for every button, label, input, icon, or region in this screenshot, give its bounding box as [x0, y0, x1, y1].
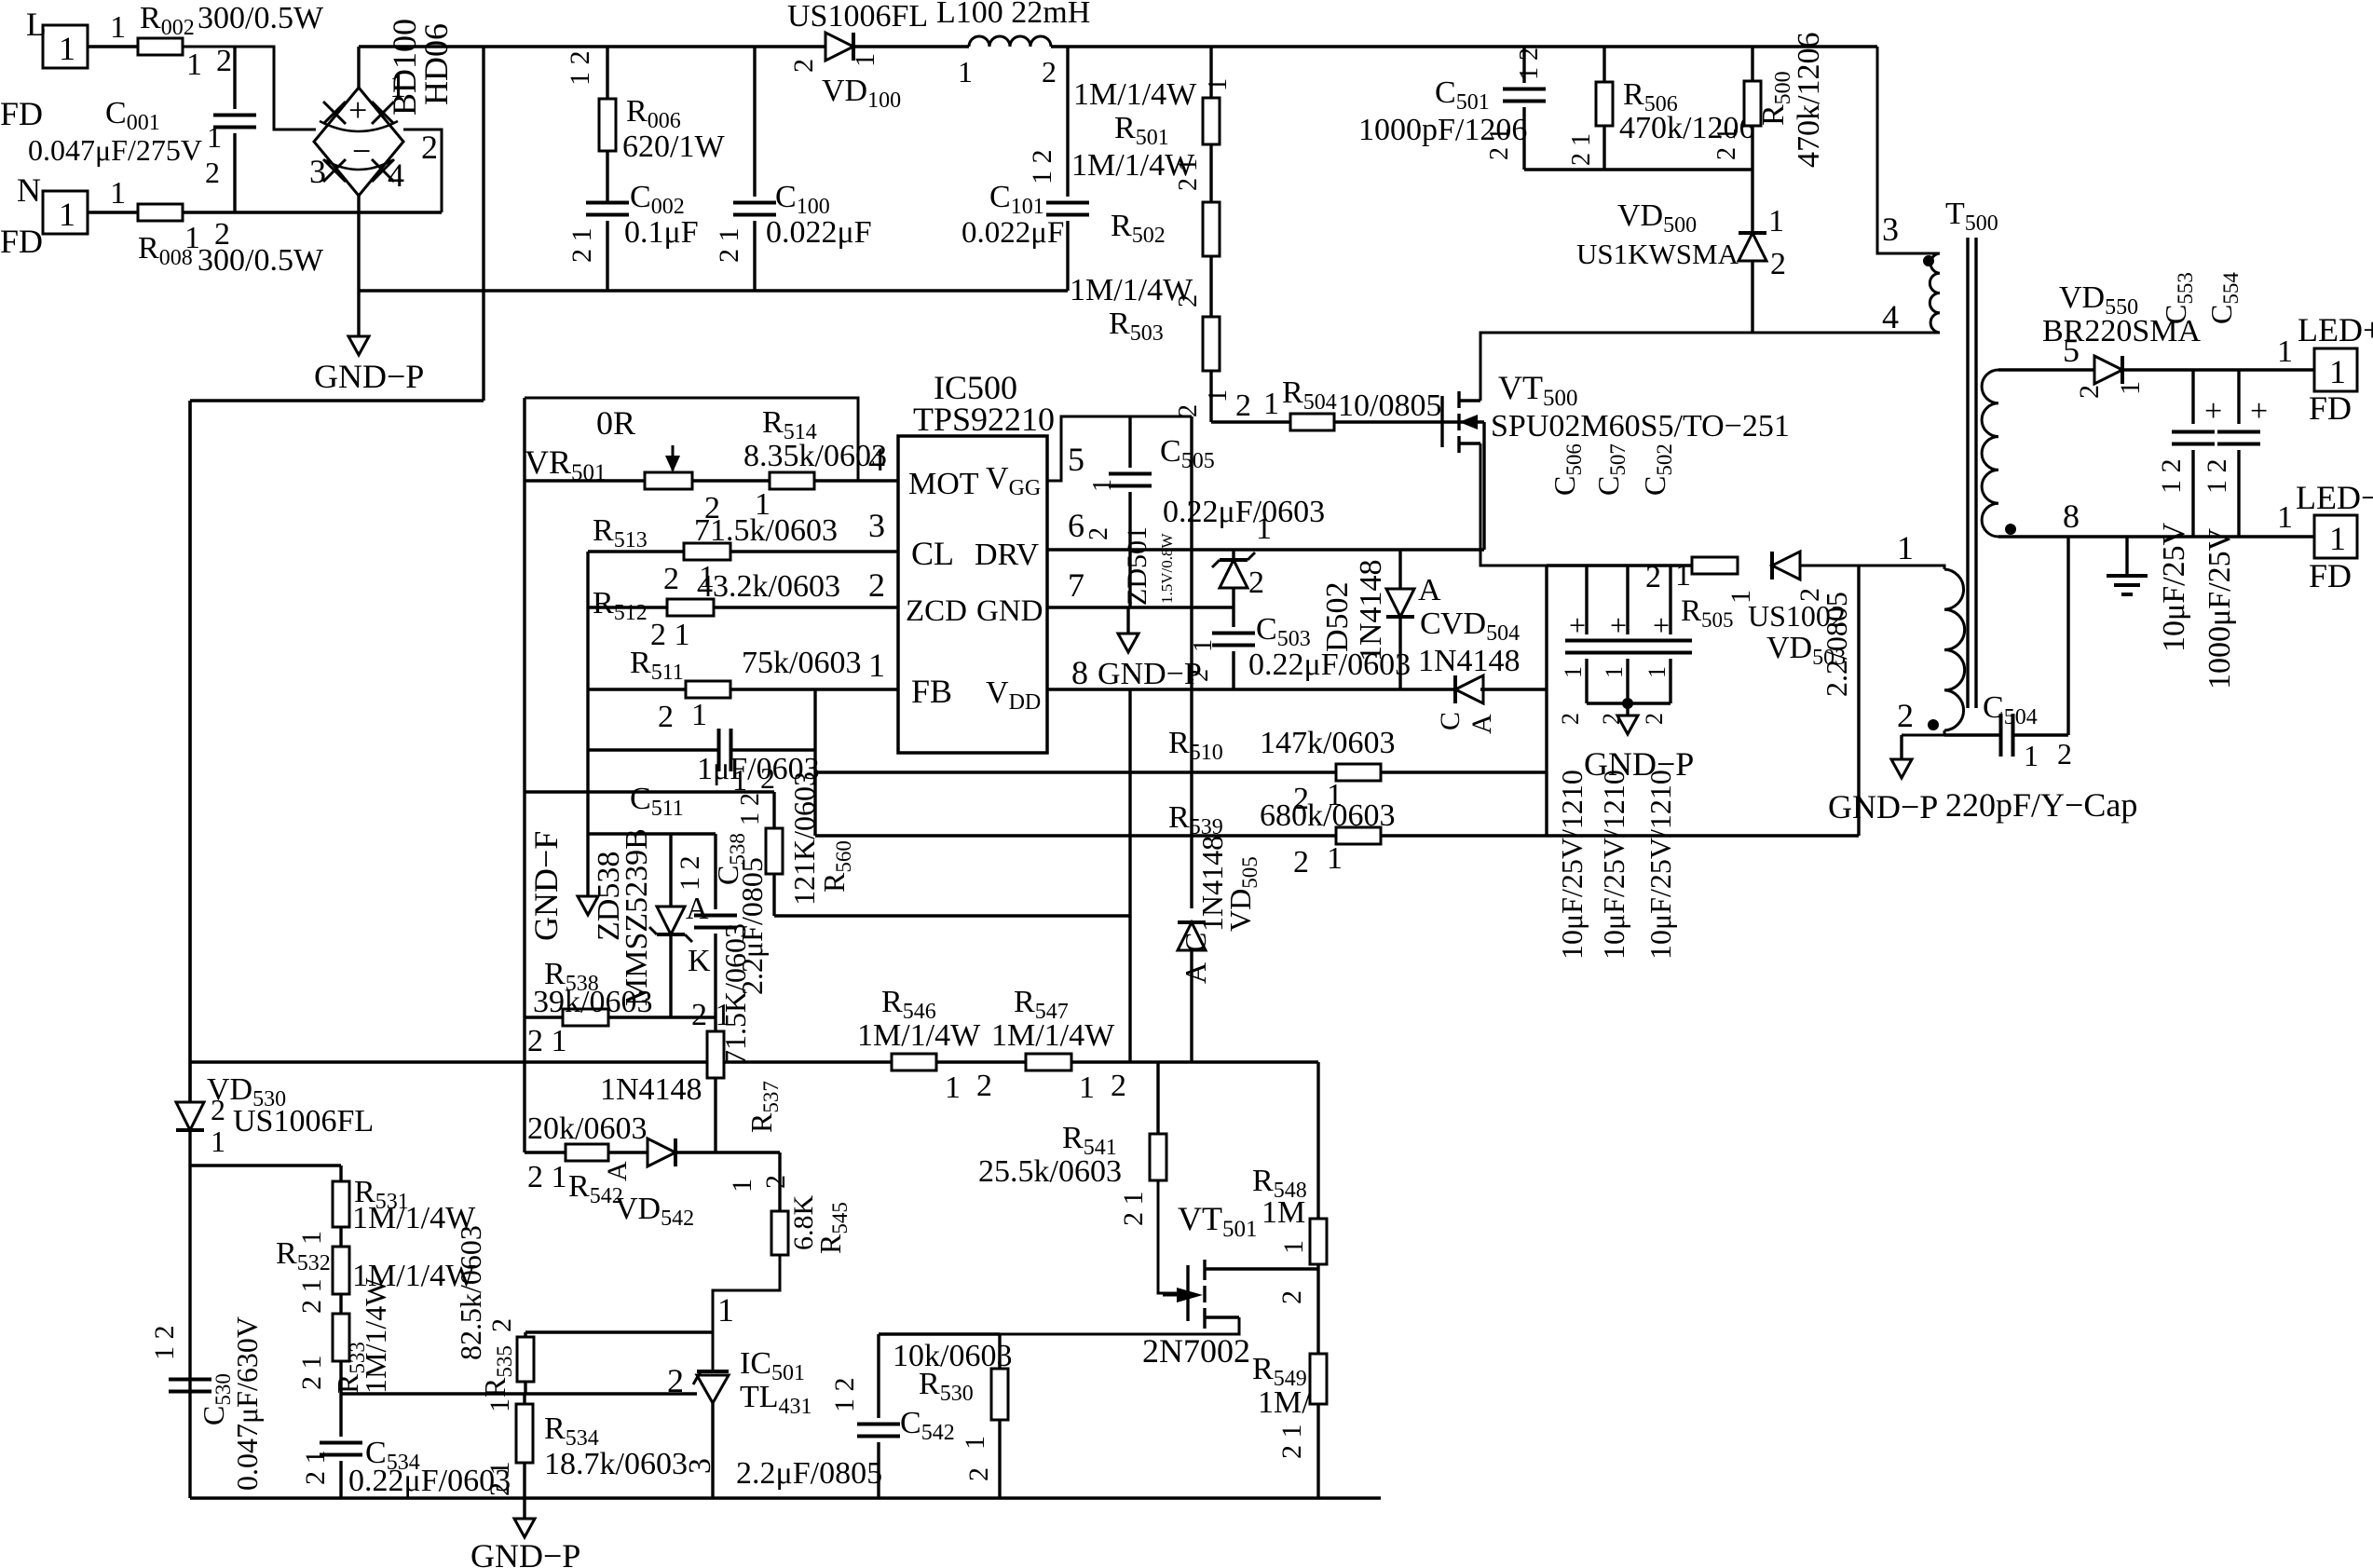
svg-text:1: 1 — [296, 1231, 327, 1245]
svg-text:1: 1 — [1256, 511, 1272, 546]
svg-text:0.047μF/630V: 0.047μF/630V — [230, 1316, 264, 1491]
svg-text:2: 2 — [1293, 845, 1309, 879]
svg-text:2: 2 — [205, 156, 220, 189]
wire R501-R502 — [1209, 144, 1212, 202]
capacitor C001 — [233, 47, 236, 109]
wire VDD to FB link — [1128, 689, 1131, 916]
svg-text:3: 3 — [309, 153, 326, 190]
svg-text:3: 3 — [1882, 211, 1899, 248]
resistor R539 — [1336, 827, 1381, 844]
wire GND row — [1047, 606, 1234, 608]
resistor R534 — [523, 1394, 525, 1404]
svg-text:0.1μF: 0.1μF — [624, 215, 699, 250]
svg-text:1: 1 — [1897, 529, 1914, 566]
svg-text:1: 1 — [1643, 666, 1671, 678]
resistor R537 body — [707, 1031, 724, 1078]
wire box2 left — [523, 398, 525, 1152]
connector N FD — [43, 191, 88, 234]
resistor R502 — [1203, 202, 1220, 256]
wire VDD row — [1047, 688, 1455, 690]
svg-text:−: − — [352, 132, 371, 170]
wire R541 to VT501 gate — [1158, 1180, 1188, 1293]
svg-text:K: K — [688, 944, 711, 978]
capacitor C505 — [1128, 416, 1131, 468]
wire VR501 to R514 — [692, 479, 770, 482]
svg-text:1: 1 — [1204, 78, 1233, 91]
diode VD505 1N4148 — [1190, 907, 1193, 909]
svg-text:1: 1 — [1079, 1070, 1095, 1105]
svg-text:147k/0603: 147k/0603 — [1260, 726, 1395, 760]
svg-text:1 2: 1 2 — [2202, 459, 2232, 495]
capacitor C554 — [2237, 370, 2240, 424]
wire R512 to ZCD — [714, 606, 898, 608]
svg-text:+: + — [2204, 394, 2222, 429]
svg-text:1: 1 — [1278, 1240, 1309, 1254]
wire top bus after L100 — [1051, 45, 1877, 48]
wire aux top — [1796, 566, 1944, 569]
wire C542 top row — [879, 1332, 1000, 1335]
svg-text:1: 1 — [2329, 520, 2346, 557]
svg-text:1000μF/25V: 1000μF/25V — [2203, 527, 2237, 689]
capacitor C534 — [339, 1394, 342, 1437]
svg-text:HD06: HD06 — [417, 23, 455, 105]
capacitor C501 — [1522, 47, 1525, 83]
ic U IC500 TPS92210 box — [898, 436, 1047, 753]
svg-text:8.35k/0603: 8.35k/0603 — [743, 439, 887, 473]
svg-text:N: N — [17, 171, 41, 209]
svg-text:20k/0603: 20k/0603 — [527, 1111, 647, 1146]
svg-text:1: 1 — [184, 221, 200, 255]
svg-text:1 2: 1 2 — [565, 51, 595, 87]
resistor R511 — [686, 681, 730, 698]
resistor R510 — [1336, 764, 1381, 781]
svg-text:1M/1/4W: 1M/1/4W — [1070, 273, 1193, 307]
resistor R514 — [770, 472, 814, 489]
svg-text:1 2: 1 2 — [675, 856, 705, 892]
transformer aux winding — [1944, 569, 1965, 730]
wire R513 to CL — [730, 550, 898, 552]
wire zd538 top — [588, 832, 716, 835]
wire R533 to ref row — [339, 1361, 342, 1394]
svg-text:1: 1 — [1601, 666, 1628, 678]
svg-text:+: + — [1653, 608, 1670, 642]
diode VD504 1N4148 — [1455, 675, 1483, 703]
svg-text:+: + — [1569, 608, 1586, 642]
ground GND-P bridge — [357, 291, 360, 336]
svg-text:1N4148: 1N4148 — [600, 1072, 702, 1107]
resistor R546 — [892, 1054, 936, 1070]
top HV bus wire — [359, 45, 829, 48]
svg-text:1: 1 — [1327, 841, 1343, 876]
svg-text:5: 5 — [1068, 441, 1084, 478]
wire R502-R503 — [1209, 256, 1212, 317]
wire secondary bottom to LED- — [1998, 535, 2314, 538]
wire R535 top row — [525, 1330, 713, 1333]
connector L FD — [43, 25, 88, 68]
svg-text:0.022μF: 0.022μF — [961, 216, 1064, 250]
wire TL431 ref row — [341, 1392, 697, 1395]
wire R511 to FB — [730, 688, 898, 690]
svg-text:25.5k/0603: 25.5k/0603 — [978, 1154, 1122, 1189]
svg-text:DRV: DRV — [975, 538, 1040, 572]
svg-text:FD: FD — [0, 223, 43, 260]
svg-text:1: 1 — [1675, 558, 1691, 593]
svg-text:FD: FD — [2309, 389, 2352, 427]
resistor R549 — [1316, 1269, 1319, 1354]
wire top bus right of VD100 — [853, 45, 969, 48]
capacitor C538 — [714, 834, 716, 909]
svg-text:+: + — [1610, 608, 1627, 642]
wire R546 row — [190, 1060, 892, 1063]
resistor R533 — [333, 1314, 349, 1361]
gnd bus wire — [359, 289, 1068, 292]
svg-text:1 2: 1 2 — [1027, 150, 1057, 185]
earth ground output — [2125, 537, 2128, 576]
wire R514 to MOT — [814, 479, 898, 482]
wire bridge + to top bus — [357, 47, 360, 88]
diode D502 — [1398, 550, 1401, 589]
svg-text:2 1: 2 1 — [484, 1462, 515, 1497]
svg-text:1: 1 — [1088, 479, 1117, 492]
svg-text:2: 2 — [1042, 55, 1057, 89]
svg-text:1: 1 — [850, 53, 880, 67]
svg-text:2 1: 2 1 — [1485, 128, 1514, 160]
svg-text:1: 1 — [2024, 739, 2039, 772]
capacitor C100 — [753, 47, 756, 197]
svg-text:1: 1 — [1560, 666, 1587, 678]
resistor R006 — [606, 47, 608, 99]
resistor R542 — [566, 1144, 608, 1161]
ground GND-P IC — [1126, 607, 1129, 634]
ground GND-P aux caps — [1626, 703, 1629, 716]
svg-text:1: 1 — [186, 48, 202, 82]
svg-text:1: 1 — [211, 1125, 225, 1158]
svg-text:2 1: 2 1 — [1567, 133, 1596, 166]
svg-text:0.022μF: 0.022μF — [766, 215, 872, 250]
svg-text:1M/: 1M/ — [1258, 1385, 1311, 1420]
svg-text:2: 2 — [760, 761, 775, 795]
svg-text:LED+: LED+ — [2298, 311, 2373, 348]
svg-text:0.047μF/275V: 0.047μF/275V — [28, 133, 202, 167]
svg-text:2: 2 — [1111, 1069, 1126, 1103]
wire ZCD row — [588, 606, 667, 608]
svg-text:2: 2 — [216, 44, 232, 78]
resistor R532 — [333, 1247, 349, 1294]
wire aux pin2 bottom — [1902, 730, 1944, 735]
svg-text:2N7002: 2N7002 — [1142, 1332, 1250, 1370]
wire R503 to gate node — [1209, 371, 1212, 422]
svg-text:2: 2 — [214, 217, 230, 252]
svg-text:2 1: 2 1 — [566, 228, 597, 264]
capacitor C503 — [1232, 607, 1234, 627]
capacitor C553 — [2191, 370, 2194, 424]
svg-text:LED−: LED− — [2296, 479, 2373, 516]
svg-text:2: 2 — [788, 59, 819, 73]
svg-text:2: 2 — [2074, 385, 2105, 399]
svg-text:2: 2 — [1084, 527, 1113, 540]
svg-text:2 1: 2 1 — [1276, 1425, 1307, 1460]
resistor R531 — [333, 1181, 349, 1227]
wire VGG to C505 top — [1047, 416, 1192, 481]
svg-text:1: 1 — [110, 176, 126, 211]
svg-text:1: 1 — [484, 1398, 515, 1412]
svg-text:2: 2 — [1897, 697, 1914, 734]
wire VD503 right + box right edge — [1857, 566, 1860, 836]
svg-text:1: 1 — [727, 1179, 757, 1193]
svg-text:FD: FD — [2309, 557, 2352, 594]
svg-text:A: A — [686, 892, 709, 926]
svg-text:470k/1206: 470k/1206 — [1792, 33, 1826, 168]
resistor R513 — [684, 543, 730, 560]
svg-text:FB: FB — [911, 673, 952, 710]
resistor R548 — [1316, 1062, 1319, 1219]
wire R546-R547 — [936, 1060, 1026, 1063]
svg-text:L100 22mH: L100 22mH — [936, 0, 1090, 30]
svg-text:2 1: 2 1 — [296, 1279, 327, 1315]
svg-text:A: A — [1418, 573, 1441, 607]
svg-text:1: 1 — [1204, 389, 1233, 402]
svg-text:10μF/25V: 10μF/25V — [2157, 522, 2191, 652]
resistor R530 — [998, 1334, 1001, 1369]
svg-text:1M/1/4W: 1M/1/4W — [1073, 77, 1197, 112]
potentiometer VR501 0R — [645, 472, 692, 489]
svg-text:1 2: 1 2 — [1515, 48, 1544, 80]
svg-text:1: 1 — [59, 30, 75, 67]
resistor R547 — [1026, 1054, 1071, 1070]
svg-text:2: 2 — [760, 1175, 791, 1189]
wire HV feed down x519 — [482, 47, 484, 401]
wire FB row — [588, 688, 686, 690]
svg-text:L: L — [26, 6, 47, 43]
capacitor C502 — [1669, 566, 1671, 634]
resistor R008 — [138, 204, 183, 221]
connector LED- — [2314, 515, 2357, 558]
svg-text:10μF/25V/1210: 10μF/25V/1210 — [1555, 770, 1589, 960]
wire box2 top — [525, 398, 858, 481]
svg-text:1: 1 — [2115, 381, 2146, 395]
svg-text:GND−P: GND−P — [471, 1537, 580, 1568]
resistor R512 — [667, 599, 714, 616]
wire N to R008 — [88, 211, 138, 213]
svg-text:GND: GND — [976, 594, 1043, 628]
svg-text:2: 2 — [1276, 1290, 1307, 1304]
wire L to R002 — [88, 45, 138, 48]
svg-text:1: 1 — [59, 196, 75, 233]
svg-text:1 2: 1 2 — [736, 793, 765, 825]
svg-text:0.22μF/0603: 0.22μF/0603 — [1163, 495, 1325, 529]
svg-text:C: C — [1420, 607, 1441, 641]
svg-text:ZCD: ZCD — [906, 594, 967, 628]
svg-text:2: 2 — [658, 700, 674, 734]
wire secondary to VD550 — [1998, 368, 2098, 371]
wire pin8 column down — [2066, 537, 2069, 735]
wire box top edge — [1547, 564, 1692, 566]
svg-text:10μF/25V/1210: 10μF/25V/1210 — [1643, 770, 1677, 960]
capacitor C507 — [1626, 566, 1629, 634]
ground GND-P bottom — [523, 1498, 525, 1519]
bottom bus wire — [190, 1496, 1381, 1499]
ic IC501 TL431 — [697, 1370, 729, 1373]
svg-text:75k/0603: 75k/0603 — [742, 646, 861, 680]
svg-text:2: 2 — [1185, 669, 1214, 682]
wire VT501 drain to R548 col — [1248, 1267, 1318, 1270]
wire R002 to bridge AC1 — [183, 47, 316, 130]
svg-text:2: 2 — [1645, 560, 1661, 594]
svg-text:82.5k/0603: 82.5k/0603 — [454, 1225, 487, 1360]
wire VT501 source down — [879, 1317, 1239, 1334]
svg-text:TPS92210: TPS92210 — [913, 401, 1055, 438]
svg-text:620/1W: 620/1W — [622, 130, 725, 164]
wire CL row — [588, 550, 684, 552]
svg-text:8: 8 — [2063, 498, 2080, 535]
svg-text:SPU02M60S5/TO−251: SPU02M60S5/TO−251 — [1491, 409, 1790, 443]
svg-text:+: + — [2250, 394, 2268, 429]
wire snubber bottom — [1524, 168, 1752, 170]
capacitor C504 Y-cap — [1944, 733, 2001, 736]
svg-text:A: A — [1466, 714, 1497, 734]
svg-text:GND−P: GND−P — [314, 358, 424, 395]
svg-text:A: A — [1179, 962, 1212, 984]
svg-text:ZD501: ZD501 — [1122, 526, 1152, 606]
svg-text:US1KWSMA: US1KWSMA — [1576, 238, 1739, 270]
capacitor C101 — [1066, 47, 1069, 197]
svg-text:CL: CL — [911, 535, 954, 572]
svg-text:1M: 1M — [1262, 1195, 1305, 1230]
svg-text:2: 2 — [421, 129, 438, 166]
wire caps join — [1587, 702, 1671, 704]
capacitor C530 — [169, 1378, 211, 1382]
wire R510 row — [815, 770, 1336, 773]
svg-text:2 1: 2 1 — [1712, 128, 1741, 160]
svg-text:1.5V/0.8W: 1.5V/0.8W — [1158, 533, 1176, 605]
svg-text:D502: D502 — [1320, 581, 1355, 652]
svg-text:1: 1 — [1768, 204, 1784, 239]
wire VD550 to LED+ — [2122, 368, 2314, 371]
diode VD100 — [825, 33, 853, 61]
svg-text:GND−F: GND−F — [527, 831, 565, 941]
svg-text:US1006FL: US1006FL — [787, 0, 928, 34]
wire corner to left rail — [190, 399, 484, 402]
svg-text:2: 2 — [663, 562, 679, 596]
wire R504 to VT500 gate — [1334, 420, 1484, 423]
diode VD500 US1KWSMA — [1739, 233, 1766, 261]
wire aux box left edge — [1545, 566, 1548, 836]
zener ZD538 MMSZ5239B — [669, 834, 672, 908]
svg-text:10/0805: 10/0805 — [1338, 389, 1441, 423]
capacitor C002 — [586, 201, 629, 205]
svg-text:4: 4 — [1882, 298, 1899, 335]
diode VD503 US1002 — [1772, 552, 1800, 579]
ground GND-P aux winding — [1900, 735, 1902, 759]
svg-text:1M/1/4W: 1M/1/4W — [1071, 148, 1195, 183]
svg-text:1: 1 — [960, 1436, 990, 1450]
svg-text:18.7k/0603: 18.7k/0603 — [544, 1447, 688, 1481]
resistor R505 — [1692, 557, 1738, 574]
svg-text:2 1: 2 1 — [300, 1451, 331, 1486]
resistor R560 — [772, 792, 775, 828]
svg-text:1M/1/4W: 1M/1/4W — [857, 1018, 981, 1053]
wire gate node — [1211, 420, 1290, 423]
svg-text:US1002: US1002 — [1748, 599, 1846, 633]
svg-text:2 1: 2 1 — [527, 1160, 567, 1194]
svg-text:1 2: 1 2 — [149, 1326, 180, 1361]
wire R500 to VD500 — [1751, 126, 1753, 233]
transformer secondary winding — [1982, 370, 1998, 537]
svg-text:1: 1 — [868, 647, 885, 684]
svg-text:MOT: MOT — [908, 467, 979, 501]
svg-text:GND−P: GND−P — [1828, 788, 1938, 825]
wire R539 row — [815, 834, 1336, 837]
resistor R500 — [1751, 47, 1753, 81]
zener ZD501 — [1232, 550, 1234, 560]
svg-text:8: 8 — [1071, 654, 1088, 691]
capacitor C542 — [877, 1334, 880, 1418]
diode VD530 US1006FL — [188, 401, 191, 1106]
svg-text:2: 2 — [1235, 389, 1251, 423]
svg-text:1: 1 — [110, 10, 126, 45]
svg-text:3: 3 — [868, 507, 885, 544]
resistor R545 6.8K — [771, 1211, 788, 1255]
svg-text:1: 1 — [2329, 353, 2346, 390]
svg-text:2: 2 — [1770, 247, 1786, 281]
svg-text:2 1: 2 1 — [527, 1024, 567, 1058]
resistor R535 — [524, 1332, 526, 1337]
svg-text:680k/0603: 680k/0603 — [1260, 798, 1395, 833]
svg-text:1: 1 — [691, 698, 707, 732]
svg-text:71.5k/0603: 71.5k/0603 — [694, 513, 838, 548]
wire R501 chain top — [1209, 47, 1212, 98]
wire MOT row — [525, 479, 645, 482]
wire FB link down — [1128, 916, 1131, 1062]
svg-text:1 2: 1 2 — [2156, 459, 2187, 495]
svg-text:C: C — [1435, 712, 1466, 730]
svg-text:A: A — [602, 1161, 633, 1181]
wire VT500 source down — [1480, 443, 1547, 566]
svg-text:4: 4 — [388, 157, 404, 194]
svg-text:1: 1 — [945, 1070, 961, 1105]
svg-text:6: 6 — [1068, 507, 1084, 544]
wire R545 column — [778, 1152, 781, 1211]
svg-text:1: 1 — [1263, 387, 1279, 421]
wire C511 row — [588, 748, 719, 751]
wire top bus to T500 pin3 — [1877, 47, 1940, 253]
svg-text:3: 3 — [683, 1458, 717, 1474]
svg-text:1: 1 — [717, 1291, 734, 1329]
resistor R501 — [1203, 98, 1220, 144]
wire R531-R532 — [339, 1227, 342, 1247]
wire VT500 drain to T500 pin4 — [1480, 333, 1940, 401]
wire DRV row — [1047, 548, 1484, 551]
resistor R506 — [1602, 47, 1605, 82]
svg-text:2: 2 — [976, 1069, 992, 1103]
wire bridge - down — [357, 196, 360, 291]
svg-text:0R: 0R — [596, 404, 635, 442]
capacitor C506 — [1585, 566, 1588, 634]
wire N to bridge AC2 — [183, 211, 442, 213]
wire R545 to TL431 — [713, 1255, 780, 1371]
svg-text:+: + — [348, 91, 367, 129]
svg-text:10μF/25V/1210: 10μF/25V/1210 — [1597, 770, 1630, 960]
svg-text:MMSZ5239B: MMSZ5239B — [620, 828, 654, 1006]
resistor R504 — [1290, 414, 1334, 430]
ground GND-F — [578, 896, 598, 915]
resistor R541 — [1156, 1062, 1159, 1134]
wire rail to R531 — [190, 1164, 341, 1166]
capacitor C511 — [717, 729, 721, 771]
inductor L100 22mH — [969, 36, 1051, 47]
svg-text:220pF/Y−Cap: 220pF/Y−Cap — [1945, 786, 2137, 824]
wire DRV riser — [1482, 422, 1485, 550]
